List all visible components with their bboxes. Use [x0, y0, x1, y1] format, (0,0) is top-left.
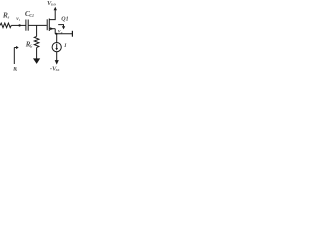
wire: Rsig to capacitor — [11, 24, 25, 26]
transistor Q1 drain lead — [49, 10, 55, 20]
node: source junction dot — [55, 33, 57, 35]
current source I (circle with down arrow) — [52, 43, 61, 52]
svg-text:SS: SS — [56, 68, 60, 72]
wire: source node to current source — [56, 34, 58, 43]
wire: current source to -VSS arrow — [56, 52, 58, 61]
annotation elbow arrow to output node — [58, 25, 63, 27]
Rin indicator arrow (up then right) — [13, 48, 15, 65]
wire: RG drop from gate wire — [36, 25, 38, 36]
transistor Q1 gate bar — [46, 19, 48, 30]
-VSS supply arrow (down) — [55, 60, 59, 65]
svg-text:s: s — [7, 14, 10, 19]
resistor RG (vertical zigzag) — [34, 36, 39, 47]
resistor Rsig (input series resistor, zigzag) — [0, 23, 11, 28]
output terminal bar — [71, 31, 73, 37]
transistor Q1 channel bar — [48, 19, 50, 32]
svg-text:DD: DD — [50, 3, 56, 7]
wire: RG to ground arrow — [36, 48, 38, 59]
svg-text:Q1: Q1 — [61, 17, 68, 23]
VDD supply arrow — [54, 7, 57, 11]
svg-text:C1: C1 — [29, 13, 34, 18]
capacitor CC1 (left plate) — [25, 20, 27, 31]
transistor Q1 source lead with arrowhead — [49, 28, 55, 30]
ground (downward arrow) — [33, 58, 40, 64]
node vi (junction dot) — [18, 24, 20, 26]
wire: output from source node to terminal — [55, 33, 72, 35]
wire: capacitor to gate — [29, 24, 47, 26]
svg-text:G: G — [30, 44, 33, 48]
capacitor CC1 (right plate) — [27, 20, 29, 31]
